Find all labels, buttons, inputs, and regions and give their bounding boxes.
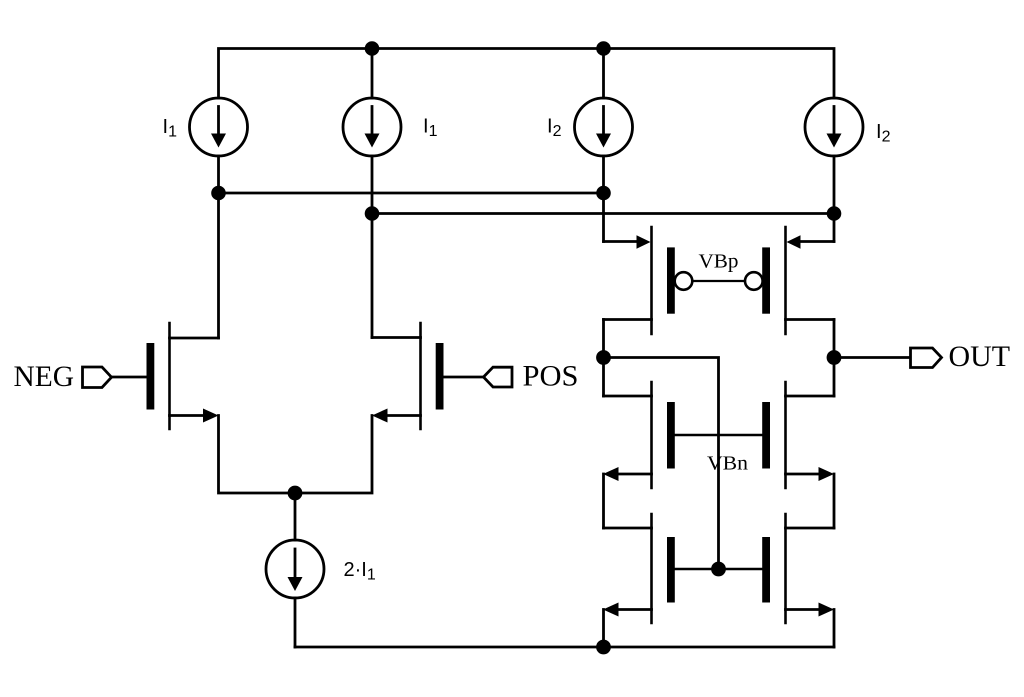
node mirror gate junction xyxy=(711,562,726,577)
node left output junction xyxy=(596,350,611,365)
wire left output node down to M5 drain xyxy=(602,358,605,397)
wire I1a output down to M1 drain xyxy=(217,156,220,338)
wire M6 source to M8 drain xyxy=(833,474,836,528)
svg-text:OUT: OUT xyxy=(949,341,1011,373)
current source I1 left xyxy=(190,98,248,156)
svg-text:POS: POS xyxy=(523,361,579,393)
port OUT xyxy=(911,348,942,368)
svg-text:VBp: VBp xyxy=(699,250,739,272)
current source I2 left xyxy=(575,98,633,156)
wire M4 drain to output node xyxy=(833,320,836,358)
port NEG xyxy=(83,367,112,388)
wire bottom rail xyxy=(295,646,834,649)
svg-text:I1: I1 xyxy=(163,116,178,141)
wire NEG port to M1 gate xyxy=(112,376,147,379)
current source 2*I1 tail xyxy=(266,540,324,598)
svg-text:2·I1: 2·I1 xyxy=(344,559,376,584)
transistor M3 PMOS cascode left xyxy=(604,227,693,334)
wire fold line to right cascode column xyxy=(372,212,834,215)
node bottom rail junction at left column xyxy=(596,640,611,655)
svg-text:I2: I2 xyxy=(547,116,562,141)
transistor M2 POS input xyxy=(372,323,444,429)
wire M2 source to tail node xyxy=(295,416,372,494)
wire tail node to tail current source xyxy=(294,493,297,540)
wire output node down to M6 drain xyxy=(833,358,836,397)
wire M8 source to bottom rail xyxy=(833,610,836,648)
wire fold line to left cascode column xyxy=(219,192,604,195)
wire rail drop to current source I2a xyxy=(602,49,605,99)
svg-text:NEG: NEG xyxy=(14,361,75,393)
wire M7 source to bottom rail xyxy=(602,610,605,648)
node tail junction xyxy=(288,486,303,501)
svg-text:I1: I1 xyxy=(423,116,438,141)
transistor M8 NMOS mirror right xyxy=(762,514,834,623)
transistor M6 NMOS cascode right xyxy=(762,382,834,488)
wire VBp gate link xyxy=(692,280,745,282)
current source I2 right xyxy=(805,98,863,156)
wire output node to OUT port xyxy=(834,356,911,359)
wire VBn gate link xyxy=(675,434,763,436)
wire I2a output down to M3 source xyxy=(602,156,605,242)
transistor M7 NMOS mirror left xyxy=(603,514,675,623)
node top rail junction at x=603.5 xyxy=(596,41,611,56)
wire left output node to mirror gates xyxy=(604,358,719,570)
node junction M1 drain and fold wire xyxy=(211,186,226,201)
wire POS port to M2 gate xyxy=(444,376,484,379)
transistor M1 NEG input xyxy=(147,323,219,429)
wire I1b output down to M2 drain xyxy=(371,156,374,338)
wire rail drop to current source I1b xyxy=(371,49,374,99)
svg-text:VBn: VBn xyxy=(707,452,748,474)
wire tail current source to bottom rail xyxy=(294,598,297,647)
port POS xyxy=(484,367,513,387)
wire top supply rail with end drops xyxy=(219,49,835,99)
node output junction OUT xyxy=(827,350,842,365)
node top rail junction at x=372 xyxy=(365,41,380,56)
node junction right cascode column xyxy=(827,206,842,221)
transistor M4 PMOS cascode right xyxy=(745,227,834,334)
wire M3 drain to left output node xyxy=(602,320,605,358)
node junction M2 drain and fold wire xyxy=(365,206,380,221)
current source I1 right xyxy=(343,98,401,156)
wire mirror gate link xyxy=(675,568,763,570)
wire M1 source to tail node xyxy=(219,416,296,494)
svg-text:I2: I2 xyxy=(876,121,891,146)
wire I2b output down to M4 source xyxy=(833,156,836,242)
transistor M5 NMOS cascode left xyxy=(603,382,675,488)
node junction left cascode column xyxy=(596,186,611,201)
wire M5 source to M7 drain xyxy=(602,474,605,528)
